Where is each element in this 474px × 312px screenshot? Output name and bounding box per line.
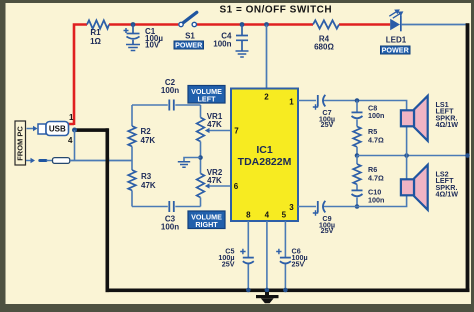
svg-text:4Ω/1W: 4Ω/1W (436, 190, 459, 199)
capacitor C2 (169, 100, 174, 111)
audio plug (40, 159, 46, 162)
capacitor C7 (318, 95, 326, 107)
svg-text:FROM PC: FROM PC (16, 126, 25, 161)
resistor R6 (356, 156, 358, 165)
capacitor C3 (169, 201, 174, 212)
wire LED cathode to ground bus (402, 24, 466, 26)
svg-text:3: 3 (289, 203, 294, 212)
node C8 junction (355, 98, 360, 103)
ground bus black (75, 23, 470, 292)
node mid rail speaker (404, 153, 409, 158)
svg-text:4: 4 (265, 211, 270, 220)
wire to input bottom (200, 198, 202, 207)
node C4 junction (240, 22, 245, 27)
node pin3 wire junction (355, 204, 360, 209)
node C1 junction (131, 22, 136, 27)
FROM PC box (15, 121, 26, 165)
svg-text:100n: 100n (161, 223, 179, 232)
wire pin1 output (298, 101, 407, 111)
node pin2 junction (264, 22, 269, 27)
svg-text:100n: 100n (213, 40, 231, 49)
svg-text:R1: R1 (90, 28, 101, 37)
switch S1 (183, 12, 197, 23)
svg-text:IC1: IC1 (256, 144, 273, 156)
wire pin2 supply (266, 25, 268, 89)
svg-text:4.7Ω: 4.7Ω (368, 174, 384, 183)
potentiometer VR2 (197, 174, 205, 198)
svg-text:S1: S1 (185, 32, 195, 41)
svg-text:7: 7 (234, 127, 239, 136)
label VOLUME LEFT (188, 86, 225, 104)
wire jack ground (74, 130, 76, 161)
wire crossing patch (bus over jack wire) (106, 158, 110, 164)
svg-text:1Ω: 1Ω (90, 37, 101, 46)
wire input top (132, 104, 168, 106)
wire to VR1 (200, 105, 202, 118)
node bus pin4 (265, 288, 270, 293)
wire +5V red rail (69, 25, 391, 126)
resistor R5 (353, 127, 361, 147)
op-amp IC U1 TDA2822M (231, 89, 298, 222)
svg-text:47K: 47K (207, 120, 222, 129)
svg-text:USB: USB (49, 125, 66, 134)
svg-text:47K: 47K (207, 176, 222, 185)
capacitor C4 (236, 25, 248, 51)
LED1 (390, 15, 402, 31)
svg-text:4: 4 (68, 136, 73, 145)
svg-text:POWER: POWER (382, 46, 410, 55)
svg-text:100n: 100n (161, 86, 179, 95)
USB connector (38, 124, 46, 134)
svg-text:1: 1 (69, 113, 74, 122)
wire pin5 (284, 221, 286, 257)
wire input network left vertical (131, 105, 133, 207)
wire pin3 output (298, 195, 407, 206)
speaker LS1 (406, 126, 408, 155)
svg-text:1: 1 (289, 98, 294, 107)
svg-text:5: 5 (282, 211, 287, 220)
resistor R3 (128, 170, 136, 190)
svg-text:POWER: POWER (175, 41, 203, 50)
resistor R4 (313, 20, 339, 28)
svg-text:680Ω: 680Ω (314, 43, 334, 52)
wire R5 to mid rail (356, 147, 358, 156)
svg-text:LEFT: LEFT (198, 95, 217, 104)
svg-text:R3: R3 (141, 172, 152, 181)
label POWER (S1) (174, 41, 204, 49)
ground earth symbol (256, 292, 279, 303)
ground input (184, 158, 201, 162)
node bus pin5 (283, 288, 288, 293)
capacitor C8 (356, 101, 358, 113)
svg-text:25V: 25V (321, 226, 334, 235)
svg-text:4Ω/1W: 4Ω/1W (436, 120, 459, 129)
potentiometer VR1 (197, 118, 205, 142)
svg-text:25V: 25V (222, 260, 235, 269)
svg-text:4.7Ω: 4.7Ω (368, 136, 384, 145)
svg-text:R2: R2 (141, 127, 152, 136)
wire audio signal (70, 160, 132, 162)
svg-text:47K: 47K (141, 181, 156, 190)
svg-text:2: 2 (264, 93, 269, 102)
resistor R2 (128, 126, 136, 146)
wire arrow to USB (27, 128, 34, 130)
wire VR1-VR2 (200, 142, 202, 174)
resistor R1 (87, 20, 109, 28)
capacitor C10 (356, 184, 358, 190)
capacitor C1 (127, 25, 140, 45)
node mid pots (198, 155, 203, 160)
svg-text:100n: 100n (368, 196, 384, 205)
label VOLUME RIGHT (188, 211, 225, 229)
node mid rail bus (465, 153, 470, 158)
wire pin4 (266, 221, 268, 290)
capacitor C5 (243, 258, 254, 264)
node mid rail left (355, 153, 360, 158)
svg-text:8: 8 (246, 211, 251, 220)
wire input bottom (132, 206, 168, 208)
svg-text:10V: 10V (145, 40, 160, 49)
node USB ground junction (72, 128, 77, 133)
svg-text:6: 6 (234, 182, 239, 191)
wire mid ground rail (357, 155, 468, 157)
svg-text:LED1: LED1 (386, 36, 407, 45)
svg-text:RIGHT: RIGHT (195, 220, 218, 229)
capacitor C6 (280, 258, 291, 264)
wire arrow to jack (26, 160, 31, 162)
svg-text:25V: 25V (321, 120, 334, 129)
wire pin8 (247, 221, 249, 257)
svg-text:100n: 100n (368, 111, 384, 120)
svg-text:S1 = ON/OFF SWITCH: S1 = ON/OFF SWITCH (220, 5, 333, 16)
svg-text:25V: 25V (292, 260, 305, 269)
svg-text:TDA2822M: TDA2822M (238, 156, 292, 168)
speaker LS2 (406, 156, 408, 180)
node bus pin8 (246, 288, 251, 293)
svg-text:47K: 47K (141, 136, 156, 145)
capacitor C9 (318, 201, 326, 213)
label POWER (LED1) (381, 46, 411, 54)
